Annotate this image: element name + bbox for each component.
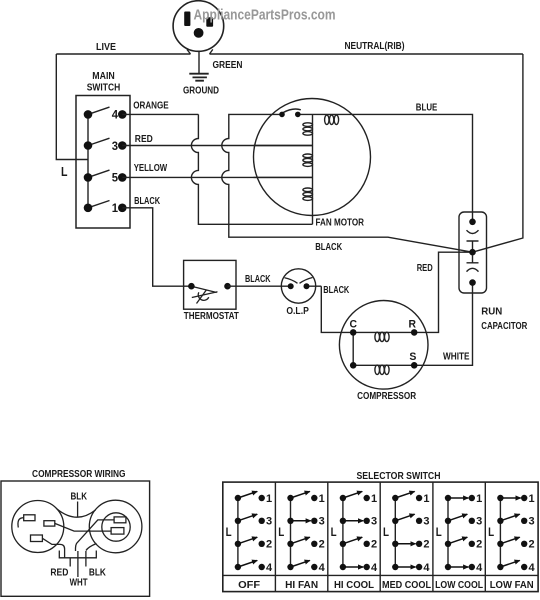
svg-text:WHT: WHT [70, 578, 88, 589]
svg-text:3: 3 [266, 516, 272, 528]
svg-text:L: L [331, 527, 337, 539]
svg-text:4: 4 [266, 562, 273, 574]
svg-text:L: L [278, 527, 284, 539]
svg-text:1: 1 [319, 493, 325, 505]
svg-text:RED: RED [417, 263, 433, 274]
svg-text:LOW FAN: LOW FAN [490, 580, 534, 591]
svg-text:SELECTOR SWITCH: SELECTOR SWITCH [357, 471, 441, 482]
svg-text:O.L.P: O.L.P [286, 306, 309, 317]
svg-text:1: 1 [266, 493, 272, 505]
svg-text:2: 2 [266, 539, 272, 551]
svg-text:L: L [488, 527, 494, 539]
svg-text:1: 1 [112, 201, 119, 215]
svg-text:BLACK: BLACK [315, 242, 343, 253]
svg-text:HI COOL: HI COOL [334, 580, 374, 591]
svg-text:GROUND: GROUND [183, 86, 219, 97]
svg-text:FAN MOTOR: FAN MOTOR [316, 217, 365, 228]
svg-text:WHITE: WHITE [443, 352, 470, 363]
svg-text:LOW COOL: LOW COOL [435, 580, 483, 591]
svg-text:3: 3 [476, 516, 482, 528]
svg-text:1: 1 [476, 493, 482, 505]
svg-text:1: 1 [423, 493, 429, 505]
svg-text:S: S [409, 351, 416, 363]
svg-text:GREEN: GREEN [213, 60, 243, 71]
svg-text:RED: RED [50, 567, 68, 578]
svg-text:2: 2 [371, 539, 377, 551]
svg-text:3: 3 [423, 516, 429, 528]
svg-text:2: 2 [476, 539, 482, 551]
svg-text:RED: RED [135, 134, 153, 145]
svg-text:3: 3 [529, 516, 535, 528]
svg-text:4: 4 [112, 108, 119, 122]
svg-text:2: 2 [423, 539, 429, 551]
svg-text:1: 1 [371, 493, 377, 505]
svg-text:L: L [226, 527, 232, 539]
svg-text:YELLOW: YELLOW [134, 163, 168, 174]
svg-text:3: 3 [112, 139, 119, 153]
svg-text:ORANGE: ORANGE [133, 101, 169, 112]
svg-text:4: 4 [529, 562, 536, 574]
svg-text:BLUE: BLUE [416, 103, 438, 114]
svg-text:4: 4 [476, 562, 483, 574]
svg-text:BLACK: BLACK [134, 196, 161, 207]
svg-text:1: 1 [529, 493, 535, 505]
svg-text:COMPRESSOR: COMPRESSOR [357, 391, 417, 402]
svg-text:L: L [383, 527, 389, 539]
svg-text:2: 2 [319, 539, 325, 551]
svg-text:L: L [436, 527, 442, 539]
svg-text:RUN: RUN [481, 307, 502, 318]
svg-text:2: 2 [529, 539, 535, 551]
svg-text:NEUTRAL(RIB): NEUTRAL(RIB) [345, 41, 405, 52]
svg-text:3: 3 [371, 516, 377, 528]
svg-text:3: 3 [319, 516, 325, 528]
svg-text:SWITCH: SWITCH [87, 83, 121, 94]
svg-text:4: 4 [423, 562, 430, 574]
svg-text:CAPACITOR: CAPACITOR [481, 321, 528, 332]
svg-text:BLACK: BLACK [245, 274, 271, 285]
svg-text:AppliancePartsPros.com: AppliancePartsPros.com [194, 7, 336, 24]
svg-text:R: R [408, 318, 416, 330]
svg-text:BLK: BLK [71, 492, 88, 503]
svg-text:COMPRESSOR WIRING: COMPRESSOR WIRING [32, 469, 126, 480]
svg-text:BLACK: BLACK [323, 285, 350, 296]
svg-text:BLK: BLK [89, 567, 107, 578]
svg-text:4: 4 [319, 562, 326, 574]
svg-text:LIVE: LIVE [96, 42, 116, 53]
svg-text:MED COOL: MED COOL [382, 580, 431, 591]
svg-text:C: C [350, 318, 358, 330]
svg-text:HI FAN: HI FAN [285, 580, 318, 591]
svg-text:5: 5 [112, 171, 119, 185]
svg-text:MAIN: MAIN [92, 71, 115, 82]
svg-text:THERMOSTAT: THERMOSTAT [184, 311, 239, 322]
svg-text:L: L [61, 164, 68, 179]
svg-text:OFF: OFF [238, 580, 260, 591]
svg-text:4: 4 [371, 562, 378, 574]
